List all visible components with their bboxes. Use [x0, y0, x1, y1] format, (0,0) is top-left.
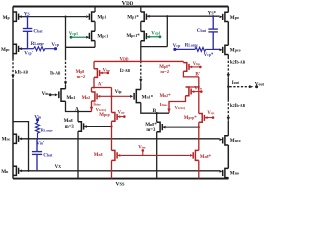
- wire red chain right vertical: [198, 87, 200, 114]
- wire diode branch from left rail: [13, 122, 29, 139]
- transistor Mp1: [89, 12, 95, 21]
- wire Mn8* source to VSS: [156, 132, 158, 179]
- transistor Mn2 (red): [92, 92, 98, 101]
- resistor RLarge (left top): [34, 47, 56, 51]
- wire Mno source to VSS: [227, 178, 229, 179]
- red VDD rail: [94, 60, 183, 62]
- wire Vbn line (red Mn8 gate to red Mn8* gate): [120, 154, 190, 156]
- wire Mpcp gate to Vcp: [117, 116, 124, 118]
- node B: [156, 112, 158, 114]
- node Vcp tap right red: [212, 116, 215, 119]
- wire Mp8* drain to node B': [183, 71, 198, 77]
- current arrow Iout dashed: [230, 86, 250, 88]
- node Vbp tap left: [107, 72, 110, 75]
- wire Mn8 red source to VSS: [111, 160, 113, 178]
- wire Mp8* gate to Vbp: [189, 66, 200, 68]
- wire Mpc1 drain to Ys branch: [66, 46, 96, 48]
- junction Ys branch down: [64, 16, 66, 18]
- wire Mn1 source to node A: [66, 101, 92, 111]
- wire Mpc1* drain across: [141, 46, 168, 48]
- resistor RLarge vertical (bottom left): [36, 120, 40, 138]
- transistor Mpc1: [89, 31, 95, 40]
- wire left rail segment bottom: [12, 79, 14, 179]
- node Vbn tap: [142, 149, 145, 152]
- junction black gate on red chain: [110, 125, 112, 127]
- wire right branch mid: [227, 78, 229, 100]
- wire Mpcp* gate to Vcp: [205, 117, 213, 119]
- transistor Mno: [223, 168, 229, 177]
- wire left rail dashed current segment kIb-AB: [12, 59, 14, 76]
- current arrow Ibias right (red dashed): [168, 103, 170, 109]
- wire Mpo source to Mpco: [227, 22, 229, 46]
- transistor Mp1*: [141, 12, 147, 21]
- current arrow I2-AB dashed: [140, 61, 142, 80]
- svg-text:VGSQ: VGSQ: [175, 105, 186, 110]
- wire Mn2 source to node A: [91, 101, 93, 112]
- wire Mn2* gate to Vbn: [191, 91, 201, 93]
- transistor Mn8* (red bottom right): [193, 150, 199, 160]
- transistor Mpo: [223, 12, 229, 21]
- junction Ys-cap: [26, 16, 28, 18]
- wire right branch to Mnco: [227, 121, 229, 136]
- wire A' horizontal: [92, 87, 112, 89]
- svg-text:Ibias: Ibias: [160, 102, 168, 107]
- transistor Mp: [13, 12, 28, 21]
- svg-text:RLarge: RLarge: [41, 128, 53, 133]
- wire Mp8 drain to node A': [93, 77, 95, 87]
- wire right rail top: [227, 7, 229, 13]
- svg-text:A': A': [98, 82, 104, 87]
- transistor Mn1*: [134, 90, 141, 103]
- transistor Mn8* m=3 (black right tail): [157, 122, 163, 132]
- wire Mnc-Mn gate vertical: [28, 139, 30, 171]
- wire Ys vertical branch to Mn1 drain: [65, 17, 67, 58]
- node Vcp tap left red: [123, 115, 126, 118]
- transistor Mpcp* (red): [199, 114, 205, 123]
- wire A' to Mn2 drain: [91, 88, 93, 93]
- node Vbn tap right: [200, 90, 203, 93]
- wire red VDD to Mp8: [93, 61, 95, 68]
- wire Vcp* line with resistor: [175, 48, 195, 50]
- node A: [77, 110, 79, 112]
- transistor Mpcp (red): [112, 113, 118, 122]
- node Ys wire (Mp gate to Mp1 gate): [22, 16, 87, 18]
- transistor Mpco: [223, 45, 229, 54]
- capacitor Cbat (bottom left): [32, 139, 42, 171]
- junction Vin': [27, 138, 29, 140]
- wire node B down to Mn8*: [156, 113, 158, 122]
- junction Vip-chain: [110, 95, 112, 97]
- wire Mn8 gate to red bias node: [84, 126, 112, 128]
- wire B' down to Mn2* drain: [189, 77, 199, 87]
- bias tap Vcp1 (green, left): [70, 36, 73, 39]
- svg-text:m=2: m=2: [160, 69, 169, 74]
- node Vbp tap right: [199, 66, 202, 69]
- wire Mp1* source to Mpc1*: [140, 21, 142, 31]
- junction Vout: [227, 86, 229, 88]
- svg-text:B: B: [153, 108, 157, 114]
- wire Mp1* drain to VDD: [140, 7, 142, 13]
- wire red VDD to Mp8*: [182, 61, 184, 62]
- transistor Mnc: [13, 134, 19, 143]
- transistor Mp8 (red): [94, 69, 100, 78]
- wire blue to Mpco gate: [213, 48, 219, 50]
- wire Ys* branch down: [166, 16, 168, 46]
- transistor Mnco: [223, 136, 229, 145]
- svg-text:VGSQ: VGSQ: [96, 107, 107, 112]
- wire Mn8* gate to red bias node right: [163, 126, 199, 128]
- current arrow k2Ib-AB lower dashed: [227, 100, 229, 118]
- svg-text:VDD: VDD: [122, 0, 134, 7]
- wire Mn2* source to node B: [169, 96, 186, 113]
- junction Ys* branch: [166, 15, 168, 17]
- bias tap Vcp1 (green, right): [147, 36, 160, 38]
- wire Mn8 source to VSS: [77, 131, 79, 178]
- wire Vin' long line (Mnc gate to Mnco gate): [22, 138, 220, 140]
- junction RLarge-Vin': [36, 138, 38, 140]
- svg-text:m=3: m=3: [146, 128, 156, 133]
- capacitor Cbat2 (right top): [208, 17, 218, 50]
- transistor Mn8 (red bottom left): [112, 150, 118, 160]
- wire Mn1* source to node B: [141, 103, 169, 114]
- capacitor Cbat (left top): [23, 17, 33, 49]
- node Ys* wire (Mp1* gate to Mpo gate): [147, 15, 219, 17]
- transistor Mn8 m=3 (black left tail): [78, 122, 84, 132]
- wire Mp1 drain to VDD: [94, 7, 96, 13]
- wire Mnco source to Mno: [227, 145, 229, 168]
- wire Vcp' gate line with resistor: [22, 48, 34, 50]
- wire VSS bottom rail: [13, 178, 228, 180]
- wire Vip line (Mn2 gate to Mn1* gate): [100, 95, 130, 97]
- current arrow Ibias left (red dashed): [91, 103, 93, 108]
- junction Vx-gate: [27, 170, 29, 172]
- transistor Mn1: [59, 89, 66, 101]
- svg-text:B': B': [195, 73, 200, 78]
- wire Mpc1* drain down: [140, 41, 142, 61]
- current arrow k2Ib-AB upper dashed: [227, 55, 229, 58]
- wire Vin dot to Mn1 gate: [50, 94, 55, 96]
- wire Vx long line (Mn gate to Mno gate): [22, 170, 220, 172]
- wire red chain right to Mn8* red: [198, 122, 200, 150]
- wire Mpc1 drain down: [94, 41, 96, 48]
- wire Mp1 source to Mpc1: [94, 21, 96, 31]
- junction Ys*-cap: [212, 15, 214, 17]
- transistor Mn: [13, 166, 19, 175]
- current arrow Ib-AB dashed: [65, 58, 67, 82]
- wire node A down to Mn8: [77, 112, 79, 122]
- node Vin terminal dot: [36, 118, 39, 121]
- transistor Mpc1*: [141, 31, 147, 40]
- transistor Mn2* (red): [186, 87, 192, 96]
- transistor Mpc: [13, 44, 28, 53]
- svg-text:m=2: m=2: [77, 74, 86, 79]
- wire left rail segment top: [12, 7, 14, 59]
- wire red chain to Mn8 red: [111, 121, 113, 150]
- node Vout terminal: [255, 85, 258, 88]
- wire Mp8 gate to Vbp: [100, 72, 107, 74]
- node Vcp terminal dot: [54, 47, 57, 50]
- node Vin gate dot: [49, 93, 52, 96]
- node Vcp terminal dot (right): [173, 48, 176, 51]
- svg-text:m=3: m=3: [65, 125, 75, 130]
- transistor Mp8* (red): [183, 63, 189, 72]
- junction black gate on red chain right: [198, 126, 200, 128]
- resistor RLarge (right top): [195, 47, 219, 51]
- wire top VDD rail: [13, 6, 228, 8]
- wire red chain left vertical: [111, 88, 113, 113]
- wire Mn8* red source to VSS: [198, 160, 200, 178]
